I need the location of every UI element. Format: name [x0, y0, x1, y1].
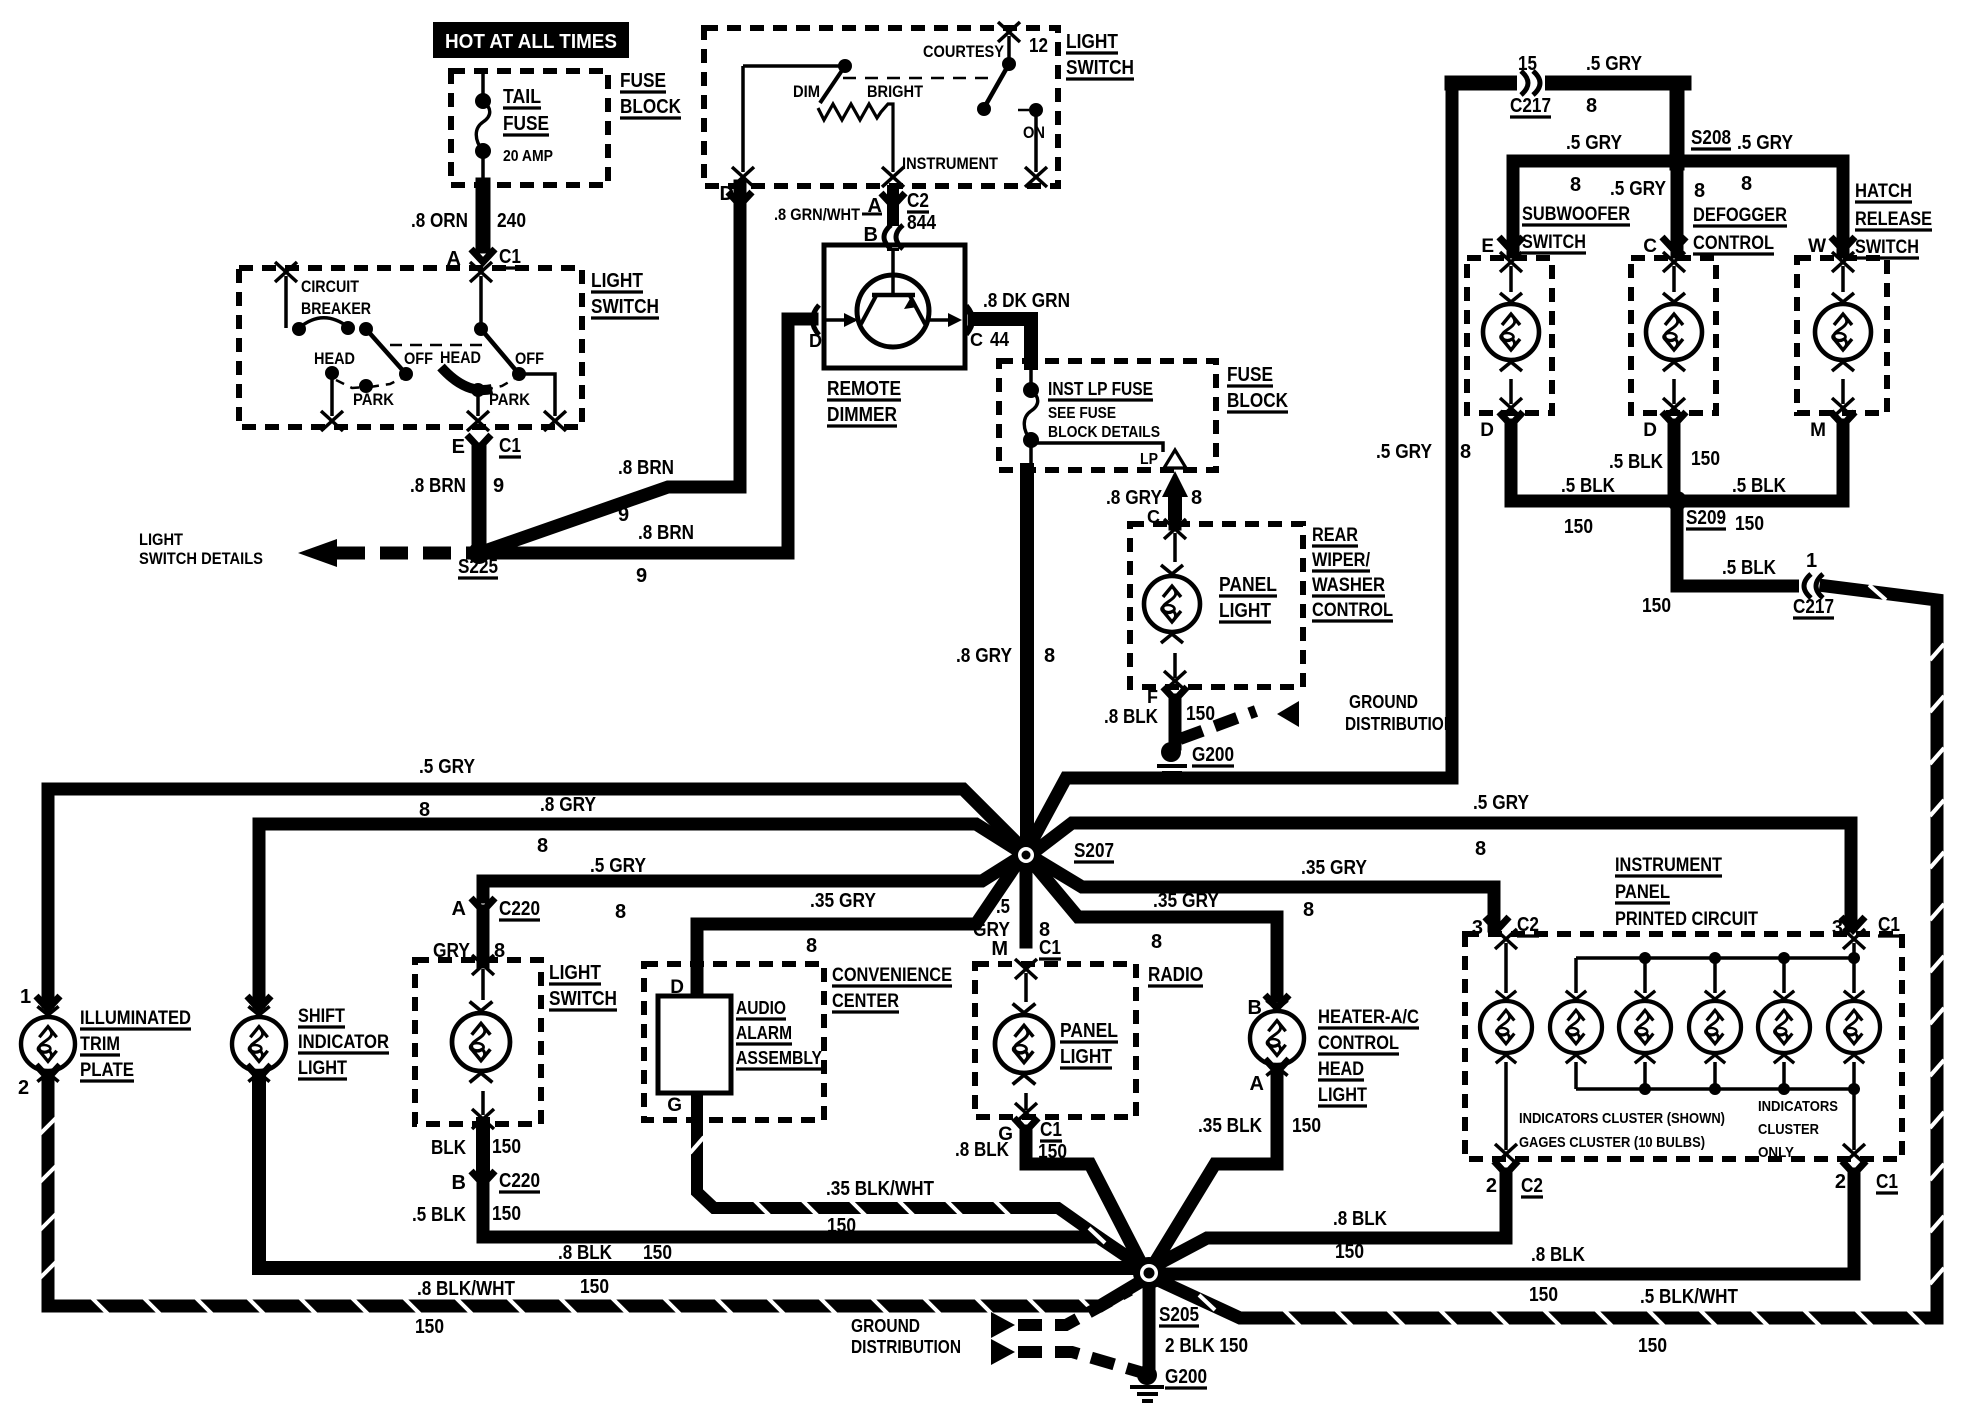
right park output line — [476, 390, 480, 416]
wire .8 GRY 8 (S207 to shift light) — [259, 824, 1022, 1002]
svg-text:.5 GRY: .5 GRY — [1566, 132, 1623, 154]
lamp: instrument panel bulb 5 — [1758, 991, 1810, 1063]
courtesy pivot — [1002, 57, 1016, 71]
svg-text:.8 GRN/WHT: .8 GRN/WHT — [774, 205, 861, 224]
label REAR WIPER WASHER CONTROL — [1312, 525, 1393, 621]
svg-text:.8 BLK/WHT: .8 BLK/WHT — [417, 1278, 515, 1300]
dimmer C arrowhead — [948, 313, 962, 327]
instrument panel printed circuit box — [1465, 934, 1902, 1159]
on link dash — [1018, 109, 1029, 112]
lamp: light switch illumination — [452, 1002, 510, 1083]
svg-text:SHIFT: SHIFT — [298, 1006, 345, 1027]
svg-text:15: 15 — [1518, 53, 1537, 75]
ip lamp6 top riser — [1852, 943, 1856, 958]
svg-text:C: C — [970, 330, 983, 350]
subwoofer switch box — [1467, 258, 1552, 413]
svg-text:ONLY: ONLY — [1758, 1144, 1794, 1161]
svg-text:.8 BRN: .8 BRN — [410, 475, 466, 497]
wire .5 BLK 150 (hatch M to S209) — [1685, 425, 1843, 501]
svg-text:F: F — [1147, 687, 1158, 707]
terminal arrow courtesy — [998, 22, 1020, 42]
svg-text:C2: C2 — [1521, 1175, 1543, 1197]
svg-text:HOT AT ALL TIMES: HOT AT ALL TIMES — [445, 31, 617, 53]
svg-text:8: 8 — [806, 935, 817, 957]
wire .8 DK GRN 44 — [975, 319, 1031, 363]
terminal arrow off out — [544, 411, 566, 431]
connector D sub — [1499, 412, 1523, 425]
svg-text:.5 BLK: .5 BLK — [412, 1204, 466, 1226]
inst fuse output to LP — [1031, 443, 1163, 452]
svg-text:240: 240 — [497, 210, 526, 232]
ip bus top junction 3 — [1639, 952, 1651, 964]
svg-text:BLOCK: BLOCK — [620, 96, 681, 118]
svg-text:S208: S208 — [1691, 127, 1731, 149]
svg-text:.8 BLK: .8 BLK — [955, 1139, 1009, 1161]
svg-text:9: 9 — [493, 475, 504, 497]
terminal arrow top sub — [1500, 252, 1522, 272]
svg-text:INDICATORS CLUSTER (SHOWN): INDICATORS CLUSTER (SHOWN) — [1519, 1110, 1725, 1127]
wire .8 ORN 240 — [476, 185, 491, 246]
svg-text:9: 9 — [636, 565, 647, 587]
lamp: heater a/c control head light — [1250, 1000, 1304, 1075]
svg-text:BRIGHT: BRIGHT — [867, 82, 924, 101]
ip lamp6 feed — [1852, 958, 1856, 993]
connector C def — [1662, 237, 1686, 250]
connector C1 pin 2 — [1842, 1161, 1866, 1174]
svg-text:D: D — [809, 331, 822, 351]
left pole output line — [330, 373, 334, 416]
svg-text:ASSEMBLY: ASSEMBLY — [736, 1048, 822, 1068]
connector A heater — [1265, 1059, 1289, 1072]
svg-text:150: 150 — [1292, 1115, 1321, 1137]
ip lamp4 return — [1713, 1062, 1717, 1089]
off-page arrow gnd 1 — [991, 1312, 1015, 1338]
inst fuse contact bottom — [1023, 432, 1039, 448]
svg-text:8: 8 — [1475, 838, 1486, 860]
connector D dimmer arc — [813, 305, 820, 335]
svg-text:S207: S207 — [1074, 840, 1114, 862]
svg-text:E: E — [452, 436, 465, 458]
label C2 — [907, 190, 929, 212]
terminal arrow dim out — [732, 167, 754, 187]
lamp: subwoofer switch — [1483, 293, 1539, 371]
wire .8 GRY 8 (fuse to S207) — [1020, 470, 1034, 848]
svg-text:150: 150 — [1529, 1284, 1558, 1306]
connector C217 bottom — [1799, 574, 1827, 598]
label S209 — [1686, 507, 1726, 529]
contact OFF right — [512, 367, 526, 381]
svg-text:8: 8 — [1741, 173, 1752, 195]
lamp feed def — [1672, 266, 1676, 292]
svg-text:DEFOGGER: DEFOGGER — [1693, 205, 1787, 226]
label C1 ip bottom — [1876, 1171, 1898, 1193]
connector E sub — [1499, 237, 1523, 250]
terminal arrow ip top-right — [1843, 929, 1865, 949]
svg-text:INSTRUMENT: INSTRUMENT — [1615, 855, 1722, 876]
splice S208 — [1667, 151, 1687, 171]
svg-text:PLATE: PLATE — [80, 1060, 134, 1081]
lamp return hat — [1841, 379, 1845, 404]
svg-text:C1: C1 — [1040, 1119, 1062, 1141]
terminal arrow lsw bottom — [472, 1109, 494, 1129]
svg-text:.8 BRN: .8 BRN — [618, 457, 674, 479]
svg-text:ILLUMINATED: ILLUMINATED — [80, 1008, 191, 1029]
connector M hat — [1831, 412, 1855, 425]
svg-text:.8 GRY: .8 GRY — [540, 794, 597, 816]
breaker contact 3 — [359, 322, 373, 336]
lamp feed hat — [1841, 266, 1845, 292]
dashed ground distribution wire — [1180, 711, 1256, 739]
dimmer C lead — [930, 318, 958, 322]
svg-text:.5 GRY: .5 GRY — [1586, 53, 1643, 75]
svg-text:.5 GRY: .5 GRY — [1473, 792, 1530, 814]
svg-text:8: 8 — [1191, 487, 1202, 509]
terminal arrow instrument out — [882, 167, 904, 187]
inst fuse element — [1024, 390, 1038, 440]
svg-text:150: 150 — [1638, 1335, 1667, 1357]
terminal arrow park out — [467, 411, 489, 431]
label C2 ip — [1517, 914, 1539, 936]
svg-text:G200: G200 — [1192, 744, 1234, 766]
svg-text:BLOCK DETAILS: BLOCK DETAILS — [1048, 424, 1160, 441]
connector C1 pin E — [467, 435, 491, 448]
svg-text:REMOTE: REMOTE — [827, 378, 901, 400]
svg-text:150: 150 — [415, 1316, 444, 1338]
svg-text:C1: C1 — [499, 246, 521, 268]
svg-text:150: 150 — [1735, 513, 1764, 535]
park travel arc right — [484, 379, 514, 390]
svg-text:2: 2 — [1835, 1171, 1846, 1193]
terminal arrow ip top-left — [1495, 929, 1517, 949]
wire 844 (C2 to dimmer B) — [887, 191, 899, 245]
svg-text:LIGHT: LIGHT — [139, 530, 184, 549]
label ILLUMINATED TRIM PLATE — [80, 1008, 191, 1081]
wire .35 GRY 8 (S207 to convenience center) — [697, 862, 1018, 991]
lamp: rear wiper panel light — [1144, 565, 1200, 643]
terminal arrow A entry — [470, 262, 492, 282]
svg-text:E: E — [1481, 236, 1494, 257]
wire .5 GRY 8 (S207 to radio M) — [1020, 858, 1033, 942]
label PANEL LIGHT radio — [1060, 1020, 1118, 1068]
label S207 — [1074, 840, 1114, 862]
terminal arrow left pole out — [321, 411, 343, 431]
label C1 — [499, 246, 521, 268]
svg-text:LIGHT: LIGHT — [591, 270, 643, 292]
ip bus top junction 4 — [1709, 952, 1721, 964]
splice S209 — [1667, 491, 1687, 511]
defogger control box — [1631, 258, 1716, 413]
svg-text:LIGHT: LIGHT — [298, 1058, 347, 1079]
svg-text:LIGHT: LIGHT — [1066, 31, 1118, 53]
svg-text:BLOCK: BLOCK — [1227, 390, 1288, 412]
lamp: instrument panel bulb 2 — [1550, 991, 1602, 1063]
svg-text:ALARM: ALARM — [736, 1023, 792, 1043]
inst fuse contact top — [1023, 382, 1039, 398]
rheostat zigzag — [818, 104, 893, 172]
svg-text:SWITCH: SWITCH — [591, 296, 659, 318]
ip bus top junction 5 — [1778, 952, 1790, 964]
transistor emitter — [861, 294, 877, 324]
svg-text:.8 BLK: .8 BLK — [1531, 1244, 1585, 1266]
connector C217 top — [1517, 71, 1545, 95]
label PANEL LIGHT wiper — [1219, 574, 1277, 622]
svg-text:REAR: REAR — [1312, 525, 1358, 546]
lsw lamp return — [481, 1091, 485, 1115]
label S225 — [458, 556, 498, 578]
terminal arrow lsw top — [472, 955, 494, 975]
svg-text:OFF: OFF — [404, 349, 433, 368]
terminal arrow ip bottom-left — [1495, 1144, 1517, 1164]
svg-text:LIGHT: LIGHT — [549, 962, 601, 984]
svg-text:150: 150 — [1564, 516, 1593, 538]
LP terminal triangle — [1164, 450, 1186, 468]
splice S205 hub — [1133, 1257, 1165, 1289]
label C220 bottom — [499, 1170, 540, 1192]
svg-text:2 BLK 150: 2 BLK 150 — [1165, 1335, 1248, 1357]
svg-text:HEAD: HEAD — [314, 349, 355, 368]
label G200 upper — [1192, 744, 1234, 766]
wire .5 GRY 8 (S207 to C1 pin3) — [1034, 823, 1851, 926]
label LIGHT SWITCH — [591, 270, 659, 318]
convenience center box — [644, 964, 824, 1120]
label REMOTE DIMMER — [827, 378, 901, 426]
inst lp fuse lead — [1029, 366, 1033, 388]
wire .35 BLK 150 (heater A to S205) — [1154, 1072, 1277, 1264]
svg-text:FUSE: FUSE — [620, 70, 666, 92]
fuse block box (tail fuse) — [451, 71, 608, 185]
wiper lamp feed — [1173, 533, 1177, 562]
label TAIL FUSE — [503, 86, 549, 135]
connector C2 pin 2 — [1494, 1161, 1518, 1174]
svg-text:PARK: PARK — [489, 390, 531, 409]
svg-text:2: 2 — [1486, 1175, 1497, 1197]
label C217 bottom — [1793, 596, 1834, 618]
wire .5 BLK 150 (S209 to C217) — [1677, 501, 1802, 586]
LP feed arrow stem — [1168, 492, 1182, 520]
svg-text:9: 9 — [618, 504, 629, 526]
wire .8 BRN 9 (S225 to dimmer D) — [479, 319, 812, 553]
lamp: illuminated trim plate — [21, 1006, 75, 1081]
svg-text:8: 8 — [615, 901, 626, 923]
svg-text:CONTROL: CONTROL — [1693, 233, 1774, 254]
ip bus bottom junction 5 — [1778, 1083, 1790, 1095]
svg-text:SWITCH: SWITCH — [1855, 237, 1919, 258]
tail fuse lead bottom — [481, 151, 485, 185]
svg-text:.35 BLK/WHT: .35 BLK/WHT — [826, 1178, 934, 1200]
svg-text:CIRCUIT: CIRCUIT — [301, 278, 359, 296]
off-page arrow light switch details — [298, 539, 337, 567]
svg-text:DISTRIBUTION: DISTRIBUTION — [1345, 714, 1455, 734]
svg-text:.5: .5 — [996, 896, 1010, 918]
label AUDIO ALARM ASSEMBLY — [736, 998, 822, 1069]
svg-text:C1: C1 — [1039, 937, 1061, 959]
label FUSE BLOCK 2 — [1227, 364, 1288, 412]
ip lamp6 bottom riser — [1852, 1089, 1856, 1150]
contact OFF left — [399, 367, 413, 381]
connector C1 pin A — [471, 249, 495, 262]
wire .5 GRY 8 (S208 to hatch W) — [1677, 161, 1843, 252]
dashed ground dist wire 1 — [1018, 1290, 1130, 1325]
svg-text:.8 BLK: .8 BLK — [1104, 706, 1158, 728]
svg-text:150: 150 — [643, 1242, 672, 1264]
off-page arrow gnd 2 — [991, 1339, 1015, 1365]
svg-text:.8 BRN: .8 BRN — [638, 522, 694, 544]
svg-text:.5 BLK: .5 BLK — [1561, 475, 1615, 497]
audio alarm assembly box — [658, 996, 731, 1093]
label C1 radio top — [1039, 937, 1061, 959]
contact PARK left — [359, 379, 373, 393]
dimmer D lead — [826, 318, 855, 322]
svg-text:CENTER: CENTER — [832, 991, 899, 1012]
transistor collector arrow — [904, 297, 918, 309]
wiper lamp return — [1173, 653, 1177, 678]
circuit breaker element — [299, 318, 348, 328]
ip lamp1 feed — [1504, 943, 1508, 993]
svg-text:SWITCH: SWITCH — [549, 988, 617, 1010]
ip lamp3 feed — [1643, 958, 1647, 993]
connector C2 pin 3 — [1485, 917, 1509, 930]
terminal arrow bottom sub — [1500, 398, 1522, 418]
switch blade left pole — [366, 329, 406, 374]
svg-text:1: 1 — [1806, 550, 1817, 572]
tail fuse contact bottom — [475, 143, 491, 159]
svg-text:SWITCH DETAILS: SWITCH DETAILS — [139, 549, 263, 568]
head-park travel arc left — [336, 380, 366, 388]
wire .5 BLK/WHT (C217 to right edge) — [1826, 585, 1944, 1318]
breaker contact 2 — [341, 321, 355, 335]
svg-text:RELEASE: RELEASE — [1855, 209, 1932, 230]
dashed wire to light switch details — [337, 547, 473, 560]
svg-text:.5 BLK: .5 BLK — [1609, 451, 1663, 473]
wire .8 BRN 9 (E to S225) — [472, 450, 487, 548]
right pole feed line — [479, 276, 483, 328]
svg-text:CONVENIENCE: CONVENIENCE — [832, 965, 952, 986]
svg-text:CONTROL: CONTROL — [1318, 1033, 1399, 1054]
lamp: instrument panel bulb 6 — [1828, 991, 1880, 1063]
terminal arrow radio bottom — [1015, 1103, 1037, 1123]
contact PARK right — [471, 383, 485, 397]
terminal arrow circuit breaker feed — [275, 262, 297, 282]
terminal arrow top def — [1663, 252, 1685, 272]
svg-text:LIGHT: LIGHT — [1318, 1085, 1367, 1106]
svg-text:8: 8 — [1460, 441, 1471, 463]
lamp feed sub — [1509, 266, 1513, 292]
splice S225 — [468, 542, 490, 564]
svg-text:HEAD: HEAD — [1318, 1059, 1364, 1080]
terminal arrow wiper bottom — [1164, 671, 1186, 691]
svg-text:M: M — [991, 938, 1008, 960]
ground symbol G200 lower — [1130, 1387, 1164, 1401]
label C2 ip bottom — [1521, 1175, 1543, 1197]
wire .35 GRY 8 (S207 to C2 pin3) — [1034, 858, 1494, 926]
terminal arrow radio top — [1015, 959, 1037, 979]
wire GRY 8 (C220 to light switch) — [477, 911, 490, 962]
ground G200 upper dot — [1161, 742, 1181, 762]
wire .5 GRY 8 (S207 to trim plate) — [48, 789, 1026, 1002]
svg-text:G: G — [667, 1095, 682, 1116]
svg-text:COURTESY: COURTESY — [923, 42, 1005, 61]
dimmer D arrowhead — [844, 313, 858, 327]
connector D def — [1662, 412, 1686, 425]
label SUBWOOFER SWITCH — [1522, 204, 1630, 253]
svg-text:150: 150 — [827, 1215, 856, 1237]
off-page arrow ground dist — [1277, 701, 1299, 727]
label C1 at E — [499, 435, 521, 457]
svg-text:BREAKER: BREAKER — [301, 300, 371, 318]
svg-text:.35 BLK: .35 BLK — [1198, 1115, 1262, 1137]
svg-text:150: 150 — [1642, 595, 1671, 617]
dimmer top rail — [743, 64, 845, 68]
ip bus bottom junction 4 — [1709, 1083, 1721, 1095]
svg-text:150: 150 — [1691, 448, 1720, 470]
ground symbol G200 upper — [1157, 766, 1187, 780]
svg-text:W: W — [1808, 236, 1826, 257]
svg-text:150: 150 — [1186, 703, 1215, 725]
fuse block box (inst lp) — [999, 361, 1216, 470]
circuit breaker feed line — [284, 276, 288, 328]
svg-text:PARK: PARK — [353, 390, 395, 409]
connector B heater — [1265, 995, 1289, 1008]
svg-text:.5 GRY: .5 GRY — [1610, 178, 1667, 200]
svg-text:PANEL: PANEL — [1615, 882, 1670, 903]
svg-text:.8 BLK: .8 BLK — [1333, 1208, 1387, 1230]
svg-text:1: 1 — [20, 986, 31, 1008]
svg-text:WASHER: WASHER — [1312, 575, 1385, 596]
wire .8 BRN 9 (S225 to light switch D) — [479, 198, 740, 553]
wire .8 BLK 150 (S205 to C1 pin2) — [1163, 1174, 1854, 1274]
wiper arm — [820, 66, 845, 103]
lamp: instrument panel bulb 4 — [1689, 991, 1741, 1063]
transistor collector — [909, 294, 925, 324]
svg-text:OFF: OFF — [515, 349, 544, 368]
ip lamp5 feed — [1782, 958, 1786, 993]
radio lamp feed — [1024, 973, 1028, 1002]
tail fuse lead top — [481, 71, 485, 99]
svg-text:LIGHT: LIGHT — [1060, 1046, 1112, 1068]
terminal arrow on out — [1025, 167, 1047, 187]
svg-text:TAIL: TAIL — [503, 86, 541, 108]
svg-text:C220: C220 — [499, 1170, 540, 1192]
svg-text:.5 GRY: .5 GRY — [1737, 132, 1794, 154]
switch blade right pole — [481, 329, 519, 374]
label C220 top — [499, 898, 540, 920]
svg-text:S209: S209 — [1686, 507, 1726, 529]
left rail down — [741, 66, 745, 172]
svg-text:TRIM: TRIM — [80, 1034, 120, 1055]
svg-text:DIMMER: DIMMER — [827, 404, 897, 426]
svg-text:.8 GRY: .8 GRY — [956, 645, 1013, 667]
connector C dimmer arc — [966, 306, 972, 334]
svg-text:PANEL: PANEL — [1219, 574, 1277, 596]
svg-text:INSTRUMENT: INSTRUMENT — [902, 154, 999, 173]
label G200 lower — [1165, 1366, 1207, 1388]
connector C220 pin B — [471, 1171, 495, 1184]
connector C2 pin A — [881, 193, 905, 206]
connector trim plate top — [36, 996, 60, 1009]
wire .35 BLK/WHT (audio alarm to S205) — [690, 1097, 1140, 1266]
label C1 radio bottom — [1040, 1119, 1062, 1141]
courtesy contact — [977, 102, 991, 116]
svg-text:C: C — [1643, 236, 1657, 257]
light switch box (top) — [704, 28, 1058, 186]
svg-text:CLUSTER: CLUSTER — [1758, 1121, 1819, 1138]
splice S207 hub — [1012, 841, 1040, 869]
title block: HOT AT ALL TIMES — [433, 22, 629, 58]
right pole pivot — [474, 322, 488, 336]
LP feed arrow up — [1162, 471, 1188, 497]
wire BLK 150 (light switch to C220 B) — [476, 1124, 490, 1172]
label S205 — [1159, 1304, 1199, 1326]
